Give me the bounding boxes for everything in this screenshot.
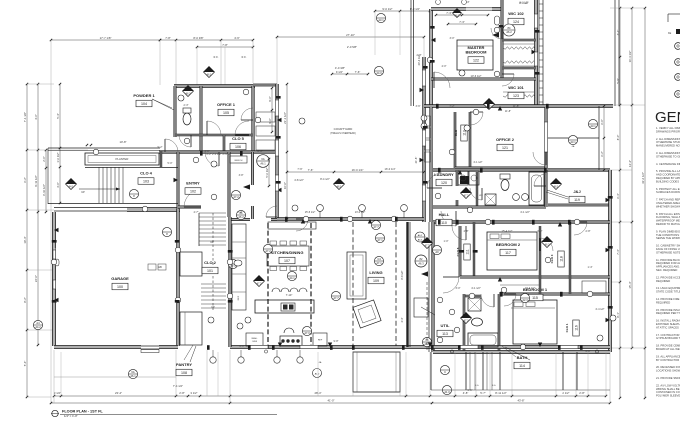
svg-text:7'-8": 7'-8" [165, 36, 171, 40]
window on east wall master [534, 14, 537, 28]
svg-text:A6.1: A6.1 [207, 74, 213, 77]
svg-text:R.O.: R.O. [242, 57, 247, 59]
bath east wall [498, 294, 500, 352]
svg-text:WIC 102: WIC 102 [508, 11, 524, 16]
svg-text:14'-4": 14'-4" [628, 160, 632, 167]
util east wall [463, 294, 465, 352]
deck edge line east bay [546, 137, 599, 139]
kitchen north wall (glazed) [277, 218, 424, 221]
svg-text:2 1/2": 2 1/2" [562, 391, 569, 395]
svg-text:111: 111 [465, 249, 469, 254]
svg-text:123: 123 [513, 94, 519, 98]
kitchen west counter strip [232, 224, 246, 310]
island stools (arcs) [272, 288, 280, 292]
svg-text:BUILDING CODES: BUILDING CODES [656, 179, 679, 183]
svg-text:LOCATIONS SHOWN: LOCATIONS SHOWN [656, 369, 680, 373]
svg-text:A7.1: A7.1 [376, 261, 382, 265]
closet stub 1 [539, 277, 541, 294]
svg-text:5'-6 1/2": 5'-6 1/2" [265, 167, 269, 177]
svg-text:8'-3 1/2": 8'-3 1/2" [410, 7, 420, 11]
svg-text:WIRING SHALL BE FULLY: WIRING SHALL BE FULLY [656, 387, 680, 391]
office2 east wall [545, 107, 547, 168]
extension line [175, 40, 177, 85]
svg-text:GARAGE: GARAGE [111, 276, 129, 281]
wd closet east wall [476, 172, 478, 207]
bedroom1 north wall [499, 293, 610, 295]
svg-text:14. PROVIDE FIRE BLOCKING AS: 14. PROVIDE FIRE BLOCKING AS [656, 297, 680, 301]
entry east wall [228, 152, 230, 217]
svg-text:124: 124 [513, 20, 519, 24]
interior stair upper run [199, 212, 226, 214]
svg-text:STATE CODE TITLE 24: STATE CODE TITLE 24 [656, 290, 680, 294]
svg-text:EXPOSED SHEATHING: EXPOSED SHEATHING [656, 322, 680, 326]
svg-text:8'-0": 8'-0" [616, 135, 620, 141]
dark jambs on south wall [207, 345, 210, 350]
svg-text:A4.1: A4.1 [69, 186, 75, 189]
dimension line [51, 39, 160, 41]
bedroom2 west wall [459, 226, 461, 277]
wic101 door swing [502, 74, 514, 86]
tag [374, 256, 383, 265]
tag [33, 320, 42, 329]
patio rect below living [353, 352, 400, 392]
svg-text:113: 113 [442, 332, 448, 336]
tag [263, 244, 272, 253]
svg-text:108: 108 [181, 371, 187, 375]
svg-text:5'-7": 5'-7" [480, 391, 486, 395]
svg-text:2'-8": 2'-8" [579, 391, 585, 395]
svg-text:OTHERWISE STUD OR FACE: OTHERWISE STUD OR FACE [656, 140, 680, 144]
clo2 room [180, 252, 202, 276]
svg-text:21'-8": 21'-8" [414, 157, 418, 164]
steps arrow [79, 188, 120, 190]
svg-text:107: 107 [284, 259, 290, 263]
dimension line [332, 73, 368, 75]
dimension line [26, 84, 28, 397]
jamb blocks on interior walls [285, 217, 288, 222]
svg-text:11. PROVIDE BLOCKING AS: 11. PROVIDE BLOCKING AS [656, 258, 680, 262]
svg-text:REQUIRED: REQUIRED [656, 279, 670, 283]
window on east wall master [534, 52, 537, 66]
svg-text:27'-10": 27'-10" [346, 33, 355, 37]
svg-text:A1.0: A1.0 [315, 372, 320, 375]
dimension line [271, 88, 273, 132]
svg-text:16'-0 1/4": 16'-0 1/4" [385, 167, 396, 171]
svg-text:A7.1: A7.1 [377, 238, 383, 242]
tag [231, 190, 240, 199]
svg-text:12. PROVIDE ACCESS PANELS AS: 12. PROVIDE ACCESS PANELS AS [656, 275, 680, 279]
courtyard east wall / hall west wall [423, 57, 426, 222]
tag [432, 245, 441, 254]
svg-text:106: 106 [235, 145, 241, 149]
svg-text:4'-6": 4'-6" [34, 114, 38, 120]
office2 east door swing [533, 152, 546, 165]
dashed ceiling lines kitchen [267, 223, 269, 348]
svg-text:J&J: J&J [573, 189, 580, 194]
garage west windows [54, 248, 56, 262]
laundry/bath north wall [433, 169, 610, 171]
svg-text:10'-6 1/2": 10'-6 1/2" [471, 74, 482, 78]
svg-text:OTHERWISE TO GRID: OTHERWISE TO GRID [656, 154, 680, 158]
tag [461, 313, 472, 324]
bath2 door swing [470, 188, 482, 200]
svg-text:FACE OF FINISH UNLESS: FACE OF FINISH UNLESS [656, 247, 680, 251]
J&J tub [529, 172, 544, 205]
hall west face [428, 222, 430, 352]
dimension line [59, 84, 61, 203]
tag [371, 220, 380, 229]
svg-text:109: 109 [373, 279, 379, 283]
svg-text:8'-11 1/2": 8'-11 1/2" [495, 391, 507, 395]
svg-text:13'-0 1/2": 13'-0 1/2" [355, 211, 366, 214]
svg-text:121: 121 [502, 146, 508, 150]
svg-text:DRAWINGS PRIOR TO WORK: DRAWINGS PRIOR TO WORK [656, 129, 680, 133]
svg-text:GYPSUM BOARD TYPE X: GYPSUM BOARD TYPE X [656, 336, 680, 340]
svg-text:2'-8": 2'-8" [586, 230, 591, 233]
svg-text:PANTRY: PANTRY [176, 362, 192, 367]
legend symbols top right [668, 13, 680, 15]
dimension line [644, 8, 646, 398]
svg-text:5'-0": 5'-0" [168, 162, 173, 165]
svg-text:BOARD AT ALL WET AREAS: BOARD AT ALL WET AREAS [656, 347, 680, 351]
tag [228, 259, 237, 268]
svg-text:3'-1": 3'-1" [205, 150, 210, 153]
WIC closet rods [503, 47, 535, 50]
svg-text:4'-8 1/2": 4'-8 1/2" [294, 178, 304, 182]
svg-text:AND COORDINATE EQUIPMENT AS: AND COORDINATE EQUIPMENT AS [656, 173, 680, 177]
svg-text:5'-1": 5'-1" [468, 389, 473, 392]
svg-text:5. PROVIDE ALL LABOR, MATERIAL: 5. PROVIDE ALL LABOR, MATERIALS [656, 169, 680, 173]
svg-text:A0: A0 [435, 250, 439, 254]
svg-text:B.G.: B.G. [475, 385, 479, 387]
tag [236, 210, 245, 219]
svg-text:UP: UP [81, 190, 85, 194]
west wing south wall [159, 151, 277, 153]
svg-text:A3.1: A3.1 [590, 124, 596, 128]
window on south wall [250, 345, 268, 348]
roof overhang line west of master wing [410, 0, 412, 106]
svg-text:3. ALL DIMENSIONS NOTED: 3. ALL DIMENSIONS NOTED [656, 151, 680, 155]
svg-text:A7.7: A7.7 [425, 245, 431, 248]
svg-text:115: 115 [532, 296, 538, 300]
svg-text:16. INSTALL RADIANT BARRIER: 16. INSTALL RADIANT BARRIER [656, 319, 680, 323]
hall niche cabinet [414, 298, 428, 317]
bedroom2 door swing [452, 226, 466, 240]
office1/clo5 divider [201, 134, 253, 136]
bedroom1 bed [513, 300, 557, 344]
svg-text:A6.3: A6.3 [418, 238, 423, 241]
gallery door [266, 206, 277, 217]
tag [66, 179, 77, 190]
svg-text:A1.0: A1.0 [444, 390, 450, 394]
master bed [457, 40, 493, 70]
svg-text:6'-0": 6'-0" [600, 119, 604, 125]
svg-text:9'-6": 9'-6" [268, 118, 272, 124]
svg-text:1'-0": 1'-0" [444, 240, 449, 243]
svg-text:3'-3" 2'-1 1/2" 3'-4 1/2": 3'-3" 2'-1 1/2" 3'-4 1/2" [206, 152, 232, 156]
svg-text:6'-3": 6'-3" [616, 193, 620, 199]
hall west wall mid [430, 107, 432, 222]
svg-text:2'-6": 2'-6" [258, 150, 263, 153]
clo3 door swing [540, 238, 553, 251]
clo4 west wall [160, 151, 162, 167]
svg-text:21. PROVIDE SMOKE DETECTORS: 21. PROVIDE SMOKE DETECTORS [656, 376, 680, 380]
bath tub [468, 333, 498, 347]
svg-text:A3.1: A3.1 [378, 18, 384, 22]
svg-text:KITCHEN/DINING: KITCHEN/DINING [271, 250, 304, 255]
window on courtyard wall [422, 185, 425, 201]
svg-text:5'-4": 5'-4" [56, 113, 60, 119]
kitchen upper counter [268, 222, 316, 229]
jj door swing [534, 174, 546, 186]
window on courtyard wall [275, 100, 278, 116]
svg-text:OVEN: OVEN [252, 341, 258, 343]
washer and dryer [458, 171, 468, 185]
svg-text:CLO: CLO [454, 129, 458, 136]
svg-text:8. PATCH ALL EXISTING: 8. PATCH ALL EXISTING [656, 212, 680, 216]
porch walkway edge top [48, 147, 160, 149]
svg-text:OFFICE 2: OFFICE 2 [496, 137, 515, 142]
svg-text:A6.1: A6.1 [260, 162, 266, 166]
svg-text:43'-8": 43'-8" [517, 398, 524, 402]
svg-text:A7.7: A7.7 [333, 296, 339, 300]
svg-text:A7.2: A7.2 [265, 249, 271, 253]
svg-text:AT ATTIC SPACES: AT ATTIC SPACES [656, 325, 679, 329]
tag [254, 276, 265, 287]
svg-text:8'-1": 8'-1" [616, 312, 620, 318]
tag [503, 24, 515, 36]
svg-text:9. PLAN DIMENSIONS TAKEN AT: 9. PLAN DIMENSIONS TAKEN AT [656, 229, 680, 233]
svg-text:2. ALL DIMENSIONS TO FACE OF: 2. ALL DIMENSIONS TO FACE OF [656, 137, 680, 141]
window on south wall [300, 345, 318, 348]
svg-text:6'-1": 6'-1" [616, 30, 620, 36]
office2 door swing [470, 112, 483, 125]
svg-text:15'-5 1/2": 15'-5 1/2" [305, 211, 316, 214]
svg-text:13'-4 1/2": 13'-4 1/2" [525, 287, 536, 290]
svg-text:THE CONDITIONS NOTED TO: THE CONDITIONS NOTED TO [656, 233, 680, 237]
dimension line [160, 39, 253, 41]
svg-text:R.O.: R.O. [214, 57, 219, 59]
window garage west 2 [53, 280, 56, 289]
tag [374, 66, 383, 75]
niche circle tag [415, 255, 427, 267]
tag [129, 189, 138, 198]
bedroom1 door swing [504, 294, 516, 306]
svg-text:CONTAINED IN CONDUIT,: CONTAINED IN CONDUIT, [656, 390, 680, 394]
svg-text:A2.3: A2.3 [522, 298, 528, 302]
clo4 door swing [165, 139, 178, 152]
dimension line [286, 84, 288, 219]
extension line [252, 40, 254, 83]
svg-text:5'-9": 5'-9" [616, 78, 620, 84]
svg-text:ENTRY: ENTRY [186, 181, 200, 186]
svg-text:A3.1: A3.1 [570, 140, 576, 144]
svg-text:A4.0: A4.0 [376, 71, 382, 75]
dimension line [430, 395, 606, 397]
svg-text:4'-1 1/2": 4'-1 1/2" [471, 286, 481, 290]
garage north wall thin part [54, 207, 127, 209]
powder1 sink [178, 95, 184, 101]
dimension line [287, 171, 424, 173]
office2 west wall [469, 112, 471, 168]
util door swing [443, 277, 459, 293]
svg-text:REF: REF [318, 340, 323, 342]
tag [334, 179, 345, 190]
svg-text:16'-0 1/4": 16'-0 1/4" [352, 168, 364, 172]
svg-text:(TRELLIS OVERHEAD): (TRELLIS OVERHEAD) [330, 132, 356, 135]
garage south wall east part [159, 346, 178, 349]
office1 door leaf A [207, 121, 221, 135]
svg-text:9'-6": 9'-6" [268, 96, 272, 102]
svg-text:20. RECESSED FIXTURES AT: 20. RECESSED FIXTURES AT [656, 365, 680, 369]
svg-text:7'-3": 7'-3" [459, 20, 465, 24]
powder south wall [175, 134, 201, 136]
small numbered circles (door tags) [193, 157, 199, 163]
svg-text:22. A/V LOW VOLTAGE CABLE,: 22. A/V LOW VOLTAGE CABLE, [656, 383, 680, 387]
svg-text:B.G.: B.G. [492, 385, 496, 387]
svg-text:WC: WC [479, 195, 483, 197]
clo5 door [241, 108, 253, 120]
window on office2 east wall [544, 122, 547, 152]
tag [551, 179, 562, 190]
interior stair lower run [201, 283, 226, 285]
svg-text:4'-0 3/8": 4'-0 3/8" [335, 66, 345, 70]
garage west wall [53, 212, 56, 346]
bedroom2 bed [487, 232, 537, 270]
svg-text:102: 102 [190, 189, 196, 193]
svg-text:REQUIRED: REQUIRED [656, 300, 670, 304]
entry south wall stub [178, 206, 201, 208]
dimension line [277, 36, 424, 38]
svg-text:41'-6 1/2": 41'-6 1/2" [641, 172, 645, 184]
svg-text:WHETHER SHOWN OR NOT: WHETHER SHOWN OR NOT [656, 204, 680, 208]
svg-text:BY CONTRACTOR: BY CONTRACTOR [656, 358, 679, 362]
svg-text:7'-6": 7'-6" [308, 168, 314, 172]
tag [588, 119, 597, 128]
svg-text:3 1/2": 3 1/2" [190, 391, 197, 395]
furr line [409, 222, 411, 347]
leader powder [152, 99, 172, 108]
svg-text:A4.1: A4.1 [289, 276, 295, 280]
deck boards bottom right [469, 352, 471, 390]
svg-text:NEC. REQUIRED: NEC. REQUIRED [656, 268, 677, 272]
svg-text:SURFACES DURING WORK: SURFACES DURING WORK [656, 190, 680, 194]
svg-text:UTIL: UTIL [441, 323, 450, 328]
leader pantry [184, 345, 193, 360]
dimension line [619, 8, 621, 398]
powder1 toilet [183, 113, 191, 125]
svg-text:A4.2: A4.2 [35, 325, 41, 329]
deck edge [431, 389, 610, 391]
svg-text:2'-3": 2'-3" [184, 104, 189, 107]
title: floor plan [52, 410, 58, 416]
grade line left [54, 376, 176, 378]
svg-text:4'-7": 4'-7" [194, 211, 199, 214]
dimension line [54, 395, 406, 397]
tag [442, 385, 451, 394]
tag [461, 188, 472, 199]
entry porch steps [98, 167, 100, 203]
range hood arc [284, 328, 294, 333]
tag [375, 233, 384, 242]
wic102 door swing [491, 28, 502, 39]
svg-text:1'-6 1/2": 1'-6 1/2" [56, 152, 60, 162]
hall door swing [441, 211, 456, 226]
master bedroom north wall east part [492, 8, 502, 11]
garage door recess step [141, 350, 159, 353]
svg-text:3 1/2": 3 1/2" [54, 391, 61, 395]
window on courtyard wall [422, 70, 425, 86]
svg-text:REF: REF [238, 295, 240, 300]
glazing mullion circles on kitchen north wall [317, 205, 324, 212]
svg-text:101: 101 [207, 269, 213, 273]
bath2 sinks [513, 194, 520, 201]
soffit dashed line lower hall [426, 282, 428, 350]
bedroom2 south wall [460, 276, 610, 278]
clo112 west wall [454, 112, 456, 168]
svg-text:23'-4": 23'-4" [115, 391, 122, 395]
courtyard door swing [296, 219, 308, 231]
svg-text:POLYMER SLEEVES TYP.: POLYMER SLEEVES TYP. [656, 394, 680, 398]
svg-text:6'-2": 6'-2" [23, 177, 27, 183]
svg-text:7'-3": 7'-3" [616, 249, 620, 255]
svg-text:OFFICE 1: OFFICE 1 [217, 102, 236, 107]
svg-text:A7.2: A7.2 [233, 195, 239, 199]
porch west edge [47, 148, 49, 204]
master north window [466, 7, 492, 9]
window garage west 1 [53, 250, 56, 259]
svg-text:FLOORING, WALLS AND: FLOORING, WALLS AND [656, 215, 680, 219]
svg-text:6'-2": 6'-2" [600, 151, 604, 157]
garage north wall thick part [127, 208, 180, 212]
svg-text:7'-4 1/2": 7'-4 1/2" [173, 384, 183, 388]
extension line full height [50, 40, 52, 403]
dimension line [268, 159, 270, 186]
svg-text:7'-6": 7'-6" [297, 167, 302, 171]
svg-text:2'-0 5/8": 2'-0 5/8" [347, 45, 357, 49]
svg-text:2'-0": 2'-0" [42, 156, 46, 162]
dimension line [51, 402, 610, 404]
svg-text:9'-8": 9'-8" [334, 340, 339, 343]
svg-text:104: 104 [141, 102, 147, 106]
svg-text:CLO 2: CLO 2 [204, 260, 217, 265]
svg-text:2'-8": 2'-8" [179, 391, 185, 395]
dimension line [631, 8, 633, 348]
tag [287, 271, 296, 280]
window on south wall [460, 345, 478, 348]
laundry east wall upper [456, 170, 458, 186]
svg-text:3'-8": 3'-8" [239, 174, 244, 177]
svg-text:POWDER 1: POWDER 1 [133, 93, 155, 98]
svg-text:4. CENTERLINE DIMENSION: 4. CENTERLINE DIMENSION [656, 162, 680, 166]
svg-text:REQUIRED BY APPLICABLE: REQUIRED BY APPLICABLE [656, 176, 680, 180]
svg-text:SERVE THE WORK: SERVE THE WORK [656, 236, 680, 240]
svg-text:A6.1: A6.1 [554, 186, 560, 189]
svg-text:A6.3: A6.3 [418, 262, 424, 266]
svg-text:15'-4 1/2": 15'-4 1/2" [502, 229, 513, 233]
svg-text:1. VERIFY ALL DIMENSIONS ON: 1. VERIFY ALL DIMENSIONS ON [656, 126, 680, 130]
svg-text:UNALTERED AREAS DAMAGED: UNALTERED AREAS DAMAGED [656, 201, 680, 205]
master/WIC divider [501, 0, 503, 79]
WIC101 north wall [502, 67, 536, 69]
millwork shelving east of clo5 [256, 112, 275, 122]
window on courtyard wall [275, 140, 278, 156]
master wing east wall [535, 0, 538, 107]
svg-text:4'-8": 4'-8" [464, 230, 469, 233]
svg-text:A7.7: A7.7 [373, 225, 379, 229]
J&J south wall [548, 204, 610, 206]
svg-text:7'-2": 7'-2" [449, 104, 454, 108]
